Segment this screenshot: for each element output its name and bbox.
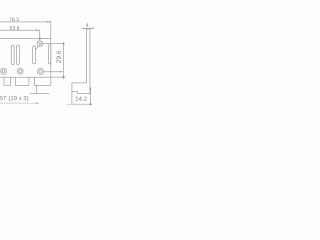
plate bottom edge xyxy=(0,76,51,78)
arrowhead 53.8 xyxy=(36,29,40,31)
text 14.2 xyxy=(76,97,87,101)
slot 1 xyxy=(11,45,14,64)
plate top edge xyxy=(0,38,51,40)
weld leader horizontal to dim line xyxy=(43,43,64,45)
hole 3 leader to dim line xyxy=(44,71,60,73)
foot internal step xyxy=(76,91,78,93)
dimension line 78.3 xyxy=(0,21,50,23)
note text 5T (19 x 3) xyxy=(0,96,28,102)
plate right edge xyxy=(50,21,52,86)
tab 2 xyxy=(16,77,29,85)
dot at bottom reference of 29.6 xyxy=(62,76,64,78)
text 4 xyxy=(86,23,89,26)
foot internal lower line xyxy=(77,93,90,95)
foot internal bend line xyxy=(72,90,77,92)
weld cross arm NE-SW extended to slot xyxy=(36,42,42,50)
side view wall right edge xyxy=(89,29,91,93)
side view foot left edge xyxy=(71,83,73,104)
thickness extension ticks xyxy=(86,28,90,30)
text 29.6 rotated xyxy=(56,51,61,63)
weld cross arm NW-SE xyxy=(38,42,42,46)
grommet hole 1 outer xyxy=(1,68,7,74)
grommet hole 3 inner xyxy=(39,70,42,73)
vertical dimension line 29.6 xyxy=(63,44,65,80)
note leader horizontal xyxy=(30,93,49,95)
thickness dim line 4 xyxy=(82,27,94,29)
side view foot bottom xyxy=(70,103,91,105)
arrowhead hole leader xyxy=(60,71,64,73)
slot 4 (at right edge) xyxy=(49,45,51,64)
foot bottom faint extension xyxy=(66,103,72,105)
tick at leader end xyxy=(47,93,49,94)
tab 3 xyxy=(34,77,50,85)
spot-weld symbol circle xyxy=(37,41,43,47)
text 78.3 xyxy=(9,18,18,22)
arrowhead 4 left xyxy=(83,28,86,29)
extension line 53.8 into weld symbol xyxy=(39,30,41,41)
dimension line 53.8 xyxy=(0,29,39,31)
grommet hole 2 outer xyxy=(17,68,23,74)
note leader vertical to tab xyxy=(36,85,38,93)
dimension line 14.2 xyxy=(90,88,92,105)
arrowhead 78.3 xyxy=(47,21,51,23)
text 53.8 xyxy=(10,26,19,30)
dot top of 29.6 xyxy=(62,43,64,45)
measure point dot on top edge xyxy=(39,38,41,40)
faint line under note xyxy=(0,102,37,104)
side view step to foot xyxy=(72,82,87,84)
slot 3 (middle) xyxy=(33,46,36,64)
grommet hole 2 inner xyxy=(19,70,22,73)
slot 2 xyxy=(17,45,20,64)
arrowhead 14.2 top xyxy=(90,88,91,91)
arrowhead under note xyxy=(36,102,40,104)
grommet hole 1 inner xyxy=(2,70,5,73)
side view wall top xyxy=(86,28,90,30)
grommet hole 3 outer xyxy=(37,68,43,74)
tab 1 xyxy=(4,77,11,85)
dot bottom of 14.2 xyxy=(90,103,92,105)
bottom edge extension line xyxy=(51,76,66,78)
side view wall left edge xyxy=(85,29,87,83)
arrowhead 4 right xyxy=(90,28,93,29)
